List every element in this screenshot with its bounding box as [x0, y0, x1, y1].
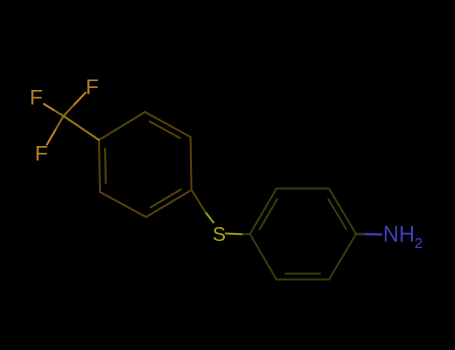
- svg-text:F: F: [35, 142, 48, 166]
- svg-text:S: S: [213, 224, 226, 246]
- svg-text:NH: NH: [383, 221, 415, 246]
- svg-text:F: F: [86, 75, 99, 99]
- svg-text:2: 2: [415, 236, 423, 252]
- svg-text:F: F: [30, 85, 43, 109]
